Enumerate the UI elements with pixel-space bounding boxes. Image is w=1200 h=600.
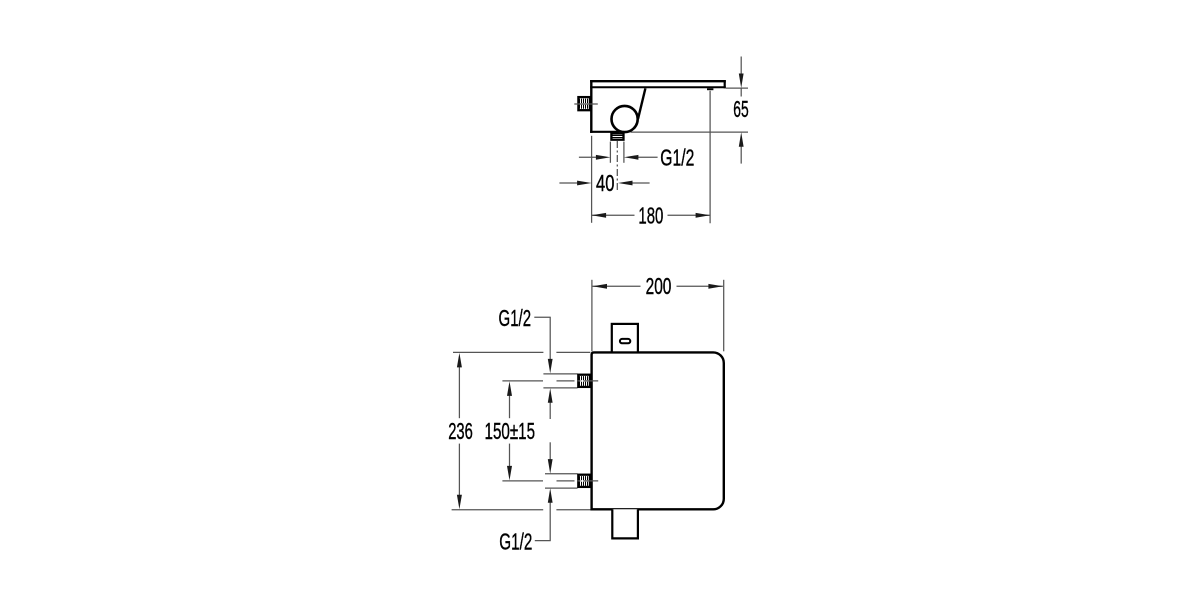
- svg-text:G1/2: G1/2: [499, 305, 532, 331]
- svg-text:180: 180: [638, 203, 663, 229]
- svg-text:G1/2: G1/2: [660, 145, 694, 171]
- svg-text:G1/2: G1/2: [499, 528, 532, 554]
- svg-text:236: 236: [448, 418, 473, 444]
- svg-text:200: 200: [646, 273, 672, 299]
- svg-text:65: 65: [733, 96, 748, 122]
- svg-text:40: 40: [596, 170, 614, 196]
- svg-text:150±15: 150±15: [485, 418, 536, 444]
